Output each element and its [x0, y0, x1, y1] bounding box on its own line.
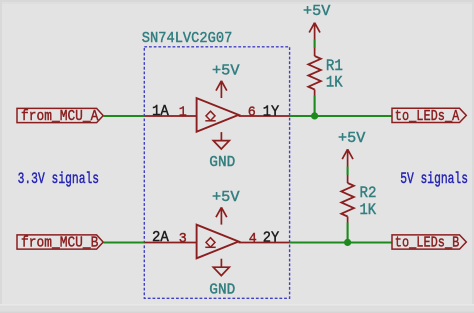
wire R1 to junction: [314, 96, 316, 117]
svg-text:2A: 2A: [152, 230, 169, 246]
svg-text:5V signals: 5V signals: [400, 170, 468, 188]
wire R2 to junction: [347, 223, 349, 243]
svg-text:1K: 1K: [360, 201, 377, 219]
pin name 2Y: [263, 231, 280, 247]
IC outline dashed box SN74LVC2G07: [144, 47, 289, 298]
svg-text:SN74LVC2G07: SN74LVC2G07: [142, 31, 233, 47]
resistor R1: [308, 48, 321, 96]
svg-text:GND: GND: [209, 155, 235, 171]
ground symbol below U1B: [209, 259, 235, 299]
svg-text:to_LEDs_A: to_LEDs_A: [395, 109, 460, 125]
svg-text:1: 1: [179, 105, 187, 121]
pin number 6: [248, 105, 256, 121]
svg-text:R1: R1: [326, 57, 343, 75]
wire from_MCU_A to pin 1: [103, 115, 144, 117]
svg-text:6: 6: [248, 105, 256, 121]
pin 3 line of U1B: [145, 242, 198, 244]
resistor R2: [341, 175, 354, 223]
label SN74LVC2G07: [142, 31, 233, 47]
power +5V symbol above R2: [338, 131, 365, 167]
power +5V symbol above U1A: [212, 64, 240, 98]
pin number 4: [249, 231, 257, 247]
wire from_MCU_B to pin 3: [103, 241, 144, 243]
ground symbol below U1A: [209, 132, 235, 171]
note 5V signals: [400, 170, 468, 188]
wire pin 6 to to_LEDs_A: [290, 115, 393, 117]
hierarchical label from_MCU_A: [17, 108, 103, 125]
power +5V symbol above U1B: [212, 190, 240, 225]
pin 1 line of U1A: [145, 115, 198, 117]
svg-text:2Y: 2Y: [263, 231, 280, 247]
power +5V symbol above R1: [303, 4, 330, 39]
pin number 3: [179, 231, 187, 247]
svg-text:from_MCU_B: from_MCU_B: [21, 236, 99, 252]
svg-text:1A: 1A: [152, 104, 169, 120]
svg-text:3.3V signals: 3.3V signals: [18, 170, 100, 188]
pin 4 line of U1B: [239, 242, 290, 244]
R1 value 1K: [326, 73, 343, 91]
buffer U1B triangle: [197, 225, 239, 259]
svg-text:+5V: +5V: [212, 64, 240, 80]
pin name 2A: [152, 230, 169, 246]
svg-text:+5V: +5V: [303, 4, 330, 20]
svg-text:+5V: +5V: [212, 190, 240, 206]
svg-text:R2: R2: [360, 184, 377, 202]
note 3.3V signals: [18, 170, 100, 188]
svg-text:+5V: +5V: [338, 131, 365, 147]
svg-text:3: 3: [179, 231, 187, 247]
pin 6 line of U1A: [239, 115, 290, 117]
R2 value 1K: [360, 201, 377, 219]
junction node A: [311, 112, 318, 119]
svg-text:1Y: 1Y: [263, 104, 280, 120]
wire +5V to R1: [314, 40, 316, 49]
svg-text:4: 4: [249, 231, 257, 247]
buffer U1A triangle: [197, 98, 239, 132]
R1 reference text: [326, 57, 343, 75]
pin number 1: [179, 105, 187, 121]
hierarchical label to_LEDs_A: [392, 108, 466, 125]
svg-text:1K: 1K: [326, 73, 343, 91]
svg-text:to_LEDs_B: to_LEDs_B: [395, 235, 460, 251]
wire pin 4 to to_LEDs_B: [290, 241, 393, 243]
hierarchical label from_MCU_B: [17, 235, 103, 252]
svg-text:GND: GND: [209, 282, 235, 298]
wire +5V to R2: [347, 167, 349, 176]
pin name 1Y: [263, 104, 280, 120]
pin name 1A: [152, 104, 169, 120]
open-drain diamond U1A: [205, 111, 215, 121]
hierarchical label to_LEDs_B: [392, 235, 466, 252]
R2 reference text: [360, 184, 377, 202]
svg-text:from_MCU_A: from_MCU_A: [21, 109, 99, 125]
junction node B: [344, 239, 351, 246]
open-drain diamond U1B: [205, 238, 215, 248]
